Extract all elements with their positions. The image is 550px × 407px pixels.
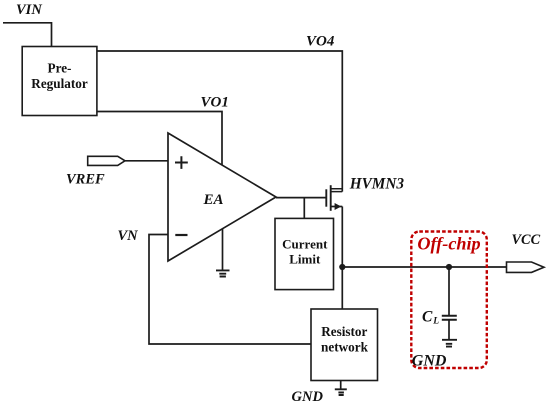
ground resistor network stem <box>340 381 342 390</box>
ground resistor network symbol <box>335 389 347 395</box>
svg-text:C: C <box>422 308 433 325</box>
transistor HVMN3 drain stub <box>331 189 343 192</box>
wire VIN <box>3 23 52 47</box>
block Resistor network <box>311 309 378 381</box>
port VCC pentagon <box>507 262 545 272</box>
svg-text:VIN: VIN <box>16 2 42 18</box>
svg-text:VO4: VO4 <box>306 33 335 49</box>
op-amp EA <box>168 133 276 261</box>
svg-text:GND: GND <box>292 389 324 405</box>
svg-text:VCC: VCC <box>512 232 541 248</box>
wire output to VCC <box>342 266 506 268</box>
svg-text:Resistor: Resistor <box>321 324 367 339</box>
wire branch to current limit <box>303 198 305 219</box>
wire VN feedback <box>149 235 311 345</box>
off-chip boundary dashed box <box>411 232 487 369</box>
wire MOSFET source down to resistor network <box>341 207 343 310</box>
svg-text:Regulator: Regulator <box>31 76 88 91</box>
ground EA stem <box>222 229 224 271</box>
svg-text:HVMN3: HVMN3 <box>349 175 405 192</box>
transistor HVMN3 channel bar <box>330 185 332 211</box>
svg-text:L: L <box>432 317 439 327</box>
junction node at capacitor <box>446 264 452 270</box>
svg-text:EA: EA <box>203 192 224 208</box>
svg-text:network: network <box>321 339 369 354</box>
svg-text:Pre-: Pre- <box>48 61 72 76</box>
op-amp minus input symbol <box>175 234 187 236</box>
block Pre-Regulator <box>22 47 97 116</box>
svg-text:GND: GND <box>412 353 447 370</box>
capacitor CL stem lower <box>448 320 450 340</box>
svg-text:VREF: VREF <box>66 172 105 188</box>
wire EA output to gate <box>276 197 326 199</box>
capacitor CL stem upper <box>448 267 450 315</box>
transistor HVMN3 gate bar <box>325 189 327 206</box>
svg-text:Current: Current <box>282 237 328 252</box>
svg-text:VO1: VO1 <box>201 95 229 111</box>
wire VREF to plus input <box>125 160 168 162</box>
junction node at output <box>339 264 345 270</box>
capacitor CL plates <box>442 316 457 320</box>
transistor HVMN3 source stub <box>331 206 343 208</box>
ground CL symbol <box>442 340 457 347</box>
wire VO1 <box>97 112 222 166</box>
block Current Limit <box>275 218 334 289</box>
ground EA symbol <box>216 270 230 276</box>
transistor HVMN3 source arrow <box>335 203 342 210</box>
svg-text:VN: VN <box>118 228 139 244</box>
port VREF pentagon <box>88 156 125 165</box>
op-amp plus input symbol <box>175 156 188 169</box>
svg-text:Off-chip: Off-chip <box>417 234 480 254</box>
svg-text:Limit: Limit <box>289 252 321 267</box>
wire VO4 <box>97 51 342 192</box>
